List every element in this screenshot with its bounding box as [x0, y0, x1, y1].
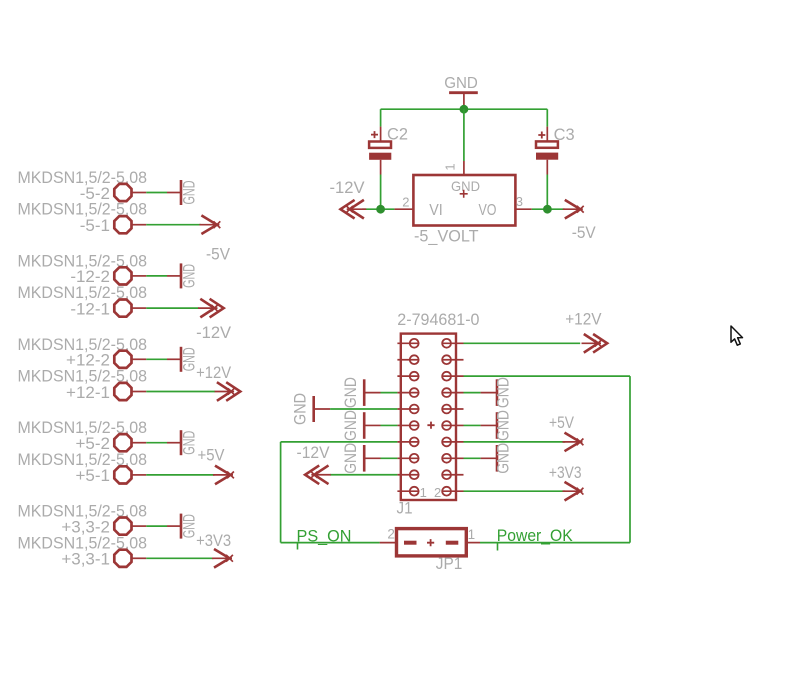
wire -12V net to regulator VI	[362, 208, 394, 210]
svg-text:+5V: +5V	[198, 446, 226, 465]
pin of +3,3-2	[133, 525, 147, 527]
wire C2 to -12V node	[380, 175, 382, 210]
wire GND net down to C2	[380, 109, 382, 126]
J1 center cross	[427, 422, 434, 429]
svg-text:-5V: -5V	[206, 245, 231, 264]
JP1 pin 1 stub	[466, 542, 480, 544]
voltage regulator -5_VOLT box	[413, 175, 515, 226]
wire GND to J1 right row 8	[464, 457, 481, 459]
J1 left pad row 3	[410, 372, 419, 381]
J1 left pad row 2	[410, 355, 419, 364]
supply arrow at +3,3-1	[212, 549, 233, 568]
supply arrow at -12-1	[198, 299, 224, 318]
supply arrow +3V3	[563, 482, 584, 501]
pin of -5-2	[133, 192, 147, 194]
wire -5V net to arrow	[532, 208, 565, 210]
pin 1 connection cross	[460, 190, 468, 198]
jumper JP1 box	[397, 529, 467, 556]
supply arrow at +5-1	[213, 466, 234, 485]
wire supply net from -12-1	[146, 307, 198, 309]
wire Power_OK net horizontal	[480, 542, 630, 544]
junction GND net at regulator pin 1	[460, 105, 469, 114]
J1 right pad row 4	[442, 388, 451, 397]
svg-text:2: 2	[402, 194, 409, 209]
wire GND net from +12-2	[146, 358, 167, 360]
svg-text:+3,3-1: +3,3-1	[61, 550, 110, 569]
J1 left pad row 5	[410, 405, 419, 414]
J1 right pin row 3	[442, 375, 464, 377]
wire supply net from +12-1	[146, 391, 215, 393]
supply arrow +12V	[582, 334, 608, 353]
svg-text:2: 2	[434, 485, 441, 500]
capacitor C2	[369, 127, 391, 175]
capacitor C3	[536, 127, 558, 175]
regulator pin 1	[463, 161, 465, 175]
pin of +12-2	[133, 358, 147, 360]
svg-text:2: 2	[387, 526, 395, 541]
wire +12V net from J1 right row 1	[464, 342, 581, 344]
svg-text:-5-1: -5-1	[80, 216, 110, 235]
wire supply net from +3,3-1	[146, 557, 213, 559]
connector pad +5-2	[114, 434, 131, 451]
J1 left pin row 1	[397, 342, 419, 344]
svg-text:GND: GND	[341, 410, 360, 441]
wire +5V net from J1 right row 7	[464, 441, 566, 443]
svg-text:-12V: -12V	[297, 443, 331, 462]
svg-text:+5V: +5V	[549, 413, 575, 432]
svg-text:1: 1	[443, 163, 458, 170]
J1 left pin row 9	[397, 474, 419, 476]
net label Power_OK origin tick	[497, 543, 499, 551]
J1 left pad row 8	[410, 454, 419, 463]
wire PS_ON net from J1 left row 7	[281, 441, 398, 443]
ground pin at -12-2	[167, 275, 181, 277]
ground symbol GND at +12-2	[180, 347, 199, 372]
J1 right pin row 6	[442, 424, 464, 426]
wire GND net down to C3	[546, 109, 548, 126]
connector pad -12-1	[114, 300, 131, 317]
J1 right pad row 6	[442, 421, 451, 430]
svg-text:GND: GND	[180, 264, 199, 288]
ground pin to J1 right row 8	[481, 457, 497, 459]
J1 right pad row 5	[442, 405, 451, 414]
ground symbol GND at +5-2	[180, 430, 199, 455]
J1 right pad row 2	[442, 355, 451, 364]
pin of +5-1	[133, 474, 147, 476]
supply arrow at +12-1	[215, 382, 241, 401]
svg-text:GND: GND	[494, 443, 513, 474]
ground pin to J1 left row 8	[364, 457, 380, 459]
J1 left pad row 9	[410, 470, 419, 479]
connector J1 box	[401, 334, 456, 500]
svg-text:GND: GND	[451, 178, 480, 194]
connector pad -5-1	[114, 216, 131, 233]
wire GND to J1 right row 6	[464, 424, 481, 426]
svg-text:-5_VOLT: -5_VOLT	[414, 226, 479, 245]
pin of +5-2	[133, 442, 147, 444]
ground pin at -5-2	[167, 192, 181, 194]
connector pad -12-2	[114, 267, 131, 284]
wire Power_OK net from J1 right row 3	[464, 375, 631, 377]
svg-text:J1: J1	[397, 499, 413, 518]
J1 left pad row 7	[410, 438, 419, 447]
ground GND pin	[463, 93, 465, 109]
wire GND to J1 left row 8	[381, 457, 398, 459]
J1 left pin row 7	[397, 441, 419, 443]
svg-text:GND: GND	[444, 75, 478, 92]
ground pin at +12-2	[167, 358, 181, 360]
J1 left pin row 10	[397, 490, 419, 492]
J1 right pin row 5	[442, 408, 464, 410]
wire GND net down to regulator pin 1	[463, 109, 465, 161]
J1 left pin row 6	[397, 424, 419, 426]
wire PS_ON net vertical	[280, 442, 282, 543]
ground symbol GND at -5-2	[180, 180, 199, 205]
wire GND net from -12-2	[146, 275, 167, 277]
svg-text:-12-1: -12-1	[70, 299, 110, 318]
supply arrow -12V (left of J1)	[305, 465, 331, 484]
svg-text:2-794681-0: 2-794681-0	[397, 310, 479, 329]
svg-text:C3: C3	[554, 125, 575, 144]
J1 right pad row 8	[442, 454, 451, 463]
ground GND bar far left	[312, 396, 315, 422]
svg-text:GND: GND	[494, 377, 513, 408]
J1 right pin row 9	[442, 474, 464, 476]
ground pin at +3,3-2	[167, 525, 181, 527]
svg-text:GND: GND	[341, 443, 360, 474]
wire supply net from -5-1	[146, 224, 201, 226]
svg-text:1: 1	[420, 485, 427, 500]
connector pad +3,3-1	[114, 550, 131, 567]
ground GND bar right of J1 (row 6)	[496, 412, 499, 439]
connector pad +12-1	[114, 383, 131, 400]
junction -5V net at C3	[543, 205, 552, 214]
net label PS_ON origin tick	[297, 543, 299, 550]
svg-text:3: 3	[516, 194, 523, 209]
ground pin at +5-2	[167, 442, 181, 444]
J1 left pin row 2	[397, 359, 419, 361]
supply arrow -5V (top right)	[563, 200, 584, 219]
wire +3V3 net from J1 right row 10	[464, 490, 566, 492]
wire GND net from -5-2	[146, 192, 167, 194]
ground pin to J1 left row 4	[364, 392, 380, 394]
J1 right pin row 2	[442, 359, 464, 361]
ground symbol GND at -12-2	[180, 263, 199, 288]
J1 right pad row 10	[442, 487, 451, 496]
ground GND bar left of J1 (row 4)	[363, 379, 366, 406]
junction -12V net at C2	[376, 205, 385, 214]
regulator pin 2 VI	[394, 208, 413, 210]
svg-text:+3V3: +3V3	[196, 531, 231, 550]
wire PS_ON net horizontal	[281, 542, 380, 544]
wire GND to J1 left row 5	[330, 408, 397, 410]
mouse cursor	[731, 326, 743, 345]
pin of +3,3-1	[133, 557, 147, 559]
svg-text:+12V: +12V	[196, 363, 232, 382]
J1 left pin row 8	[397, 457, 419, 459]
svg-text:-5V: -5V	[572, 223, 597, 242]
J1 left pad row 1	[410, 339, 419, 348]
svg-text:+12V: +12V	[565, 310, 602, 329]
ground GND bar left of J1 (row 8)	[363, 445, 366, 472]
svg-text:JP1: JP1	[436, 554, 463, 573]
svg-text:PS_ON: PS_ON	[297, 527, 352, 546]
svg-text:+3V3: +3V3	[549, 463, 582, 482]
svg-text:VO: VO	[479, 202, 497, 219]
wire C3 to -5V node	[546, 175, 548, 210]
J1 left pad row 10	[410, 487, 419, 496]
supply arrow at -5-1	[199, 215, 220, 234]
J1 left pin row 5	[397, 408, 419, 410]
svg-text:+5-1: +5-1	[76, 466, 111, 485]
wire GND to J1 left row 4	[381, 392, 398, 394]
J1 right pad row 1	[442, 339, 451, 348]
wire GND net from +5-2	[146, 442, 167, 444]
ground GND bar right of J1 (row 8)	[496, 445, 499, 472]
J1 left pin row 3	[397, 375, 419, 377]
J1 right pin row 1	[442, 342, 464, 344]
J1 right pad row 3	[442, 372, 451, 381]
pin of -12-2	[133, 275, 147, 277]
svg-text:GND: GND	[180, 181, 199, 205]
J1 right pad row 7	[442, 438, 451, 447]
svg-text:1: 1	[468, 527, 476, 542]
ground symbol GND at +3,3-2	[180, 514, 199, 539]
wire -12V net from J1 left row 9	[330, 474, 397, 476]
connector pad -5-2	[114, 184, 131, 201]
svg-text:GND: GND	[494, 410, 513, 441]
connector pad +12-2	[114, 351, 131, 368]
JP1 pad 2 (left dash)	[404, 541, 417, 545]
wire GND to J1 left row 6	[381, 424, 398, 426]
supply arrow -12V (top left)	[341, 200, 367, 219]
pin of -12-1	[133, 307, 147, 309]
connector pad +3,3-2	[114, 518, 131, 535]
svg-text:C2: C2	[387, 124, 408, 143]
connector pad +5-1	[114, 466, 131, 483]
svg-text:Power_OK: Power_OK	[497, 526, 574, 545]
svg-text:-12V: -12V	[330, 178, 366, 197]
J1 left pin row 4	[397, 392, 419, 394]
J1 right pin row 10	[442, 490, 464, 492]
ground GND bar left of J1 (row 6)	[363, 412, 366, 439]
regulator pin 3 VO	[515, 208, 531, 210]
JP1 center cross	[427, 539, 434, 546]
ground pin to J1 left row 6	[364, 424, 380, 426]
wire GND net from +3,3-2	[146, 525, 167, 527]
pin of +12-1	[133, 391, 147, 393]
svg-text:GND: GND	[180, 431, 199, 455]
svg-text:-12V: -12V	[196, 323, 232, 342]
ground pin to J1 right row 6	[481, 424, 497, 426]
JP1 pad 1 (right dash)	[446, 541, 459, 545]
ground GND bar right of J1 (row 4)	[496, 379, 499, 406]
J1 left pad row 4	[410, 388, 419, 397]
svg-text:VI: VI	[429, 202, 443, 219]
pin of -5-1	[133, 224, 147, 226]
J1 right pin row 7	[442, 441, 464, 443]
wire GND net horizontal (C2 to C3)	[381, 108, 548, 110]
JP1 pin 2 stub	[380, 542, 397, 544]
wire supply net from +5-1	[146, 474, 214, 476]
svg-text:GND: GND	[341, 377, 360, 408]
ground GND bar (top)	[449, 91, 478, 94]
wire GND to J1 right row 4	[464, 392, 481, 394]
J1 left pad row 6	[410, 421, 419, 430]
wire Power_OK net vertical	[629, 376, 631, 542]
svg-text:+12-1: +12-1	[66, 383, 110, 402]
ground pin to J1 left row 5	[314, 408, 330, 410]
ground pin to J1 right row 4	[481, 392, 497, 394]
J1 right pad row 9	[442, 470, 451, 479]
supply arrow +5V	[563, 433, 584, 452]
J1 right pin row 4	[442, 392, 464, 394]
J1 right pin row 8	[442, 457, 464, 459]
svg-text:GND: GND	[291, 393, 310, 425]
